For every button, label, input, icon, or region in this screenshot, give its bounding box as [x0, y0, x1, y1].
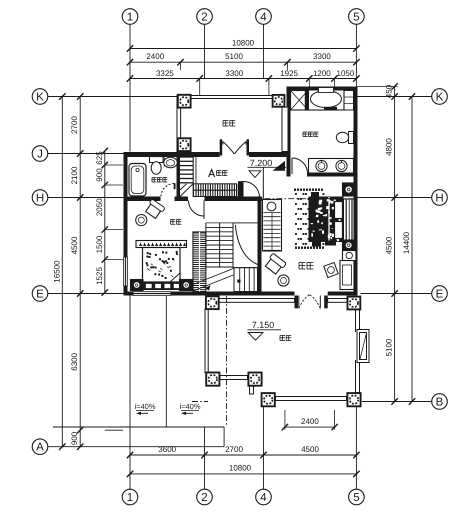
grid bubble 5 bottom	[349, 489, 365, 505]
svg-text:2100: 2100	[70, 166, 79, 184]
terrace upper wall west	[177, 96, 181, 152]
terrace lower wall C3-C4	[220, 376, 248, 380]
terrace lower wall south	[276, 397, 347, 401]
svg-text:4: 4	[260, 492, 267, 504]
svg-text:K: K	[436, 92, 444, 104]
wall north J-line	[124, 152, 220, 157]
slope label i=40% right	[179, 402, 200, 415]
stair flight A (upper)	[180, 157, 196, 198]
svg-text:2: 2	[201, 492, 207, 504]
svg-text:J: J	[37, 149, 43, 161]
grid bubble H left	[32, 190, 48, 206]
level mark 7.200	[248, 158, 287, 199]
svg-text:1: 1	[127, 12, 133, 24]
svg-text:H: H	[435, 193, 443, 205]
grid bubble 2 bottom	[197, 489, 213, 505]
dim row top 2400/5100/3300	[127, 52, 360, 70]
column porch mid-left	[206, 373, 219, 386]
toilet bath2	[336, 132, 353, 144]
label bath2	[303, 132, 318, 137]
dim chain left 16500	[53, 93, 66, 450]
door bedroom1	[189, 201, 205, 220]
svg-text:16500: 16500	[53, 260, 62, 283]
label terrace lower	[280, 336, 291, 341]
svg-text:2700: 2700	[70, 116, 79, 134]
svg-text:5100: 5100	[385, 338, 394, 356]
column terrace-upper SW	[178, 138, 191, 151]
nightstand bed1 W	[131, 280, 144, 291]
grid bubble H right	[432, 190, 448, 206]
svg-text:4800: 4800	[385, 138, 394, 156]
dim row bottom 3600/2700/4500	[127, 445, 360, 458]
desk chair master	[324, 262, 338, 277]
shower/duct X-box bath2	[291, 91, 309, 111]
grid bubble 1 top	[122, 9, 138, 25]
dim row top 3325/3300/1925/1200/1050	[127, 69, 360, 96]
sink bath1	[164, 157, 178, 167]
bed master	[309, 192, 344, 247]
grid bubble E left	[32, 286, 48, 302]
roof edge vertical at garage corner	[223, 427, 225, 447]
desk master	[340, 261, 354, 290]
svg-text:4: 4	[260, 12, 267, 24]
svg-text:K: K	[36, 92, 44, 104]
nightstand master S	[343, 240, 356, 251]
svg-text:900: 900	[70, 431, 79, 445]
stair flight C (middle)	[206, 223, 233, 268]
svg-text:4500: 4500	[70, 236, 79, 254]
svg-text:5: 5	[353, 12, 359, 24]
slope label i=40% left	[134, 402, 155, 415]
grid line K left	[48, 96, 177, 98]
stair flight F (lower)	[234, 268, 258, 292]
terrace lower wall east	[356, 309, 360, 392]
svg-text:2400: 2400	[301, 417, 319, 426]
svg-text:7.200: 7.200	[250, 158, 273, 168]
stair landing with arc	[233, 223, 259, 268]
grid bubble B right	[432, 394, 448, 410]
terrace lower wall west	[205, 309, 208, 373]
shelf bath2	[344, 91, 354, 111]
stool master	[278, 275, 289, 286]
jacuzzi tub bath2	[305, 88, 344, 111]
door bath2	[292, 158, 308, 174]
tv cabinet master	[343, 251, 357, 261]
svg-text:4500: 4500	[385, 236, 394, 254]
svg-text:E: E	[436, 289, 444, 301]
grid line 2 stem top	[204, 24, 206, 78]
rug dotted master	[294, 189, 324, 249]
wall south E-line	[124, 292, 295, 296]
svg-text:1925: 1925	[280, 69, 298, 78]
bath2 wall west	[287, 87, 291, 177]
column porch N-right	[348, 297, 361, 310]
vanity double sinks bath2	[309, 159, 354, 175]
svg-text:5: 5	[353, 492, 359, 504]
svg-text:3300: 3300	[225, 69, 243, 78]
dim chain left inner 625/900/2050/1500/1525	[95, 148, 123, 296]
label bedroom master	[299, 263, 314, 270]
svg-text:A: A	[36, 442, 44, 454]
label terrace upper	[223, 121, 235, 127]
grid bubble J left	[32, 146, 48, 162]
svg-text:14400: 14400	[402, 231, 411, 254]
stair break line + arrow	[193, 269, 233, 292]
grid bubble 4 top	[256, 9, 272, 25]
column terrace-upper NW	[178, 95, 191, 108]
svg-text:2400: 2400	[146, 52, 164, 61]
bed1	[143, 248, 181, 283]
nightstand master N	[343, 183, 356, 196]
bath2 wall south	[307, 173, 358, 177]
svg-text:i=40%: i=40%	[179, 402, 200, 411]
dim row bottom 10800	[127, 464, 360, 478]
wall stub stair newel	[238, 181, 244, 197]
svg-text:i=40%: i=40%	[134, 402, 155, 411]
wall east (bath2+master)	[354, 87, 358, 296]
wall bath1 east	[177, 156, 181, 197]
dim 2400 porch door	[282, 410, 338, 430]
grid line K right	[358, 96, 432, 98]
window west wall bedroom1	[123, 257, 128, 286]
centerline H through master	[253, 198, 354, 200]
svg-text:1200: 1200	[313, 69, 331, 78]
column porch N-left	[206, 296, 219, 309]
svg-text:5100: 5100	[225, 52, 243, 61]
svg-text:625: 625	[95, 151, 104, 165]
door french terrace-upper	[220, 139, 249, 155]
column porch S-right	[347, 393, 360, 406]
svg-text:3325: 3325	[156, 69, 174, 78]
door bath1	[161, 183, 176, 196]
stool bedroom1	[136, 215, 147, 226]
svg-text:1: 1	[127, 492, 133, 504]
terrace upper wall east	[282, 107, 288, 152]
grid bubble K right	[432, 89, 448, 105]
wall master west	[258, 200, 262, 292]
terrace lower wall C4 down	[250, 386, 254, 394]
dim chain right 14400	[402, 93, 415, 404]
wall H-line under bath1/stair	[124, 197, 161, 202]
grid line E right	[361, 293, 432, 295]
grid line E left	[48, 293, 124, 295]
label bath1	[152, 178, 167, 183]
svg-text:H: H	[36, 193, 44, 205]
grid line 2 stem bottom	[204, 428, 206, 490]
grid line J left	[48, 153, 124, 155]
grid bubble 5 top	[349, 9, 365, 25]
armchair master	[264, 253, 287, 275]
label bedroom1	[171, 220, 182, 225]
grid line B right	[362, 401, 432, 403]
level mark 7.150	[248, 320, 282, 340]
grid bubble 1 bottom	[122, 489, 138, 505]
roof ridge line lower-left	[165, 296, 167, 427]
dim chain right 450/4800/4500/5100	[358, 83, 398, 404]
svg-text:2050: 2050	[95, 198, 104, 216]
stair run B (dense treads)	[194, 184, 237, 197]
grid line H left	[48, 197, 124, 199]
bed1 headboard	[136, 241, 187, 248]
grid line 5 stem bottom	[355, 407, 357, 489]
grid bubble 4 bottom	[256, 489, 272, 505]
door french porch	[295, 295, 328, 309]
toilet bath1	[150, 157, 164, 175]
svg-text:B: B	[436, 397, 444, 409]
dim chain left 2700/2100/4500/6300/900	[70, 93, 123, 450]
grid line H right	[358, 197, 432, 199]
svg-text:10800: 10800	[232, 39, 255, 48]
grid line 4 stem bottom	[263, 407, 265, 489]
wall west	[124, 152, 128, 296]
centerline porch vertical	[226, 296, 228, 427]
svg-text:2700: 2700	[225, 445, 243, 454]
grid line 1 stem top	[129, 24, 131, 151]
svg-text:1050: 1050	[337, 69, 355, 78]
dim row top 10800	[127, 39, 360, 52]
svg-text:7.150: 7.150	[252, 320, 275, 330]
bed1 foot bench	[143, 282, 181, 290]
roof eave line	[53, 426, 224, 428]
centerline B left stub	[192, 401, 208, 403]
grid line 1 stem bottom	[129, 296, 131, 490]
door master bedroom	[241, 181, 260, 197]
column house NE corner	[273, 95, 285, 107]
svg-text:E: E	[36, 289, 44, 301]
bath2 wall north	[287, 87, 358, 91]
svg-text:3600: 3600	[158, 445, 176, 454]
label stair A	[209, 170, 228, 177]
column porch S-left	[262, 393, 275, 406]
terrace lower wall north (colonnade)	[219, 299, 295, 303]
grid line A left	[48, 446, 224, 448]
grid line 5 stem top	[355, 24, 357, 86]
grid bubble A left	[32, 439, 48, 455]
svg-text:6300: 6300	[70, 352, 79, 370]
svg-text:10800: 10800	[229, 464, 252, 473]
svg-text:3300: 3300	[313, 52, 331, 61]
svg-text:450: 450	[385, 84, 394, 98]
window south wall bedroom1	[133, 291, 171, 296]
nightstand bed1 E	[180, 280, 194, 291]
terrace window bay east	[355, 330, 369, 363]
leader line hall	[262, 167, 264, 200]
chair bedroom1	[144, 199, 165, 220]
grid bubble E right	[432, 286, 448, 302]
headboard cabinet master	[344, 199, 355, 240]
bathtub bath1	[129, 164, 146, 197]
svg-text:4500: 4500	[301, 445, 319, 454]
grid bubble K left	[32, 89, 48, 105]
stair hatch band D	[193, 232, 206, 292]
wardrobe master	[263, 200, 282, 252]
terrace upper wall north	[177, 96, 273, 99]
svg-text:2: 2	[201, 12, 207, 24]
grid bubble 2 top	[197, 9, 213, 25]
svg-text:1525: 1525	[95, 267, 104, 285]
grid line 4 stem top	[263, 24, 265, 78]
svg-text:1500: 1500	[95, 235, 104, 253]
svg-text:900: 900	[95, 168, 104, 182]
partition toilet/sink bath1	[163, 157, 165, 167]
column porch mid-right	[248, 373, 261, 386]
